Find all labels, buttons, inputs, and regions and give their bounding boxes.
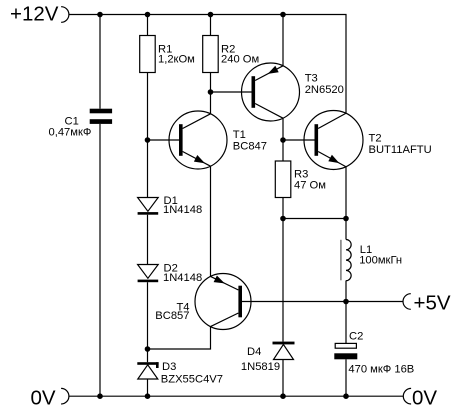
svg-text:+5V: +5V: [414, 292, 451, 315]
svg-text:BUT11AFTU: BUT11AFTU: [369, 144, 432, 156]
svg-text:2N6520: 2N6520: [305, 84, 344, 96]
svg-text:1,2кОм: 1,2кОм: [158, 54, 195, 66]
svg-text:0V: 0V: [31, 387, 56, 410]
svg-text:1N4148: 1N4148: [163, 204, 202, 216]
svg-text:D4: D4: [247, 346, 261, 358]
svg-text:0V: 0V: [412, 387, 437, 410]
svg-text:240 Ом: 240 Ом: [221, 54, 259, 66]
svg-text:T1: T1: [233, 129, 246, 141]
svg-text:1N5819: 1N5819: [241, 361, 280, 373]
svg-text:0,47мкФ: 0,47мкФ: [49, 126, 92, 138]
svg-text:D3: D3: [162, 361, 176, 373]
svg-text:T2: T2: [369, 133, 382, 145]
svg-text:470 мкФ 16В: 470 мкФ 16В: [348, 363, 414, 375]
svg-text:C2: C2: [349, 331, 363, 343]
svg-text:BC847: BC847: [233, 140, 267, 152]
svg-text:BZX55C4V7: BZX55C4V7: [161, 373, 223, 385]
svg-text:100мкГн: 100мкГн: [359, 255, 402, 267]
svg-text:+12V: +12V: [10, 3, 59, 26]
svg-text:1N4148: 1N4148: [163, 272, 202, 284]
svg-text:47 Ом: 47 Ом: [294, 179, 326, 191]
svg-text:BC857: BC857: [155, 310, 189, 322]
svg-text:T3: T3: [305, 73, 318, 85]
